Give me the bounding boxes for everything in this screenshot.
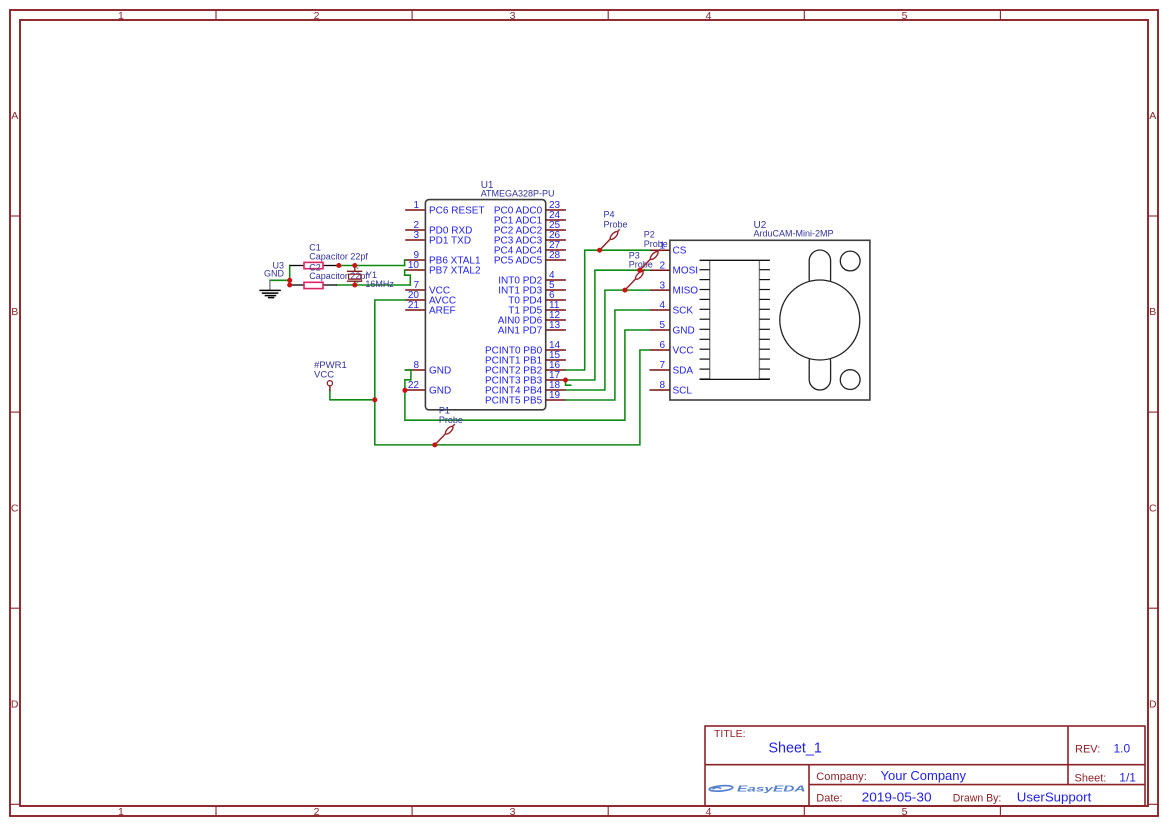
svg-text:2019-05-30: 2019-05-30 <box>862 789 932 804</box>
svg-text:8: 8 <box>659 380 665 391</box>
svg-text:AREF: AREF <box>429 306 456 317</box>
svg-text:Probe: Probe <box>644 239 668 249</box>
svg-text:PB7 XTAL2: PB7 XTAL2 <box>429 266 481 277</box>
svg-text:1.0: 1.0 <box>1114 742 1131 756</box>
svg-text:5: 5 <box>659 320 665 331</box>
svg-text:PCINT5 PB5: PCINT5 PB5 <box>485 396 543 407</box>
svg-text:GND: GND <box>264 268 285 278</box>
svg-text:GND: GND <box>673 326 695 337</box>
svg-text:D: D <box>11 699 19 711</box>
svg-text:2: 2 <box>659 260 665 271</box>
svg-text:1/1: 1/1 <box>1119 771 1136 785</box>
svg-text:5: 5 <box>902 806 908 818</box>
svg-text:EasyEDA: EasyEDA <box>737 785 806 794</box>
svg-text:C: C <box>11 502 19 514</box>
svg-text:Capacitor 22pf: Capacitor 22pf <box>309 251 368 261</box>
svg-text:CS: CS <box>673 246 687 257</box>
svg-text:VCC: VCC <box>314 370 334 381</box>
svg-text:Date:: Date: <box>816 792 842 804</box>
svg-text:GND: GND <box>429 366 451 377</box>
svg-text:A: A <box>11 110 18 122</box>
svg-text:UserSupport: UserSupport <box>1017 790 1092 805</box>
svg-text:Sheet:: Sheet: <box>1075 773 1107 785</box>
svg-text:1: 1 <box>118 806 124 818</box>
svg-text:4: 4 <box>706 10 712 22</box>
svg-text:A: A <box>1149 110 1156 122</box>
svg-text:5: 5 <box>902 10 908 22</box>
svg-text:D: D <box>1149 699 1157 711</box>
svg-text:B: B <box>1149 306 1156 318</box>
svg-text:SCL: SCL <box>673 386 693 397</box>
svg-text:Your Company: Your Company <box>881 768 967 783</box>
svg-text:ATMEGA328P-PU: ATMEGA328P-PU <box>481 189 555 199</box>
svg-text:PD1 TXD: PD1 TXD <box>429 236 471 247</box>
svg-text:SDA: SDA <box>673 366 694 377</box>
svg-text:19: 19 <box>549 390 561 401</box>
svg-text:7: 7 <box>659 360 665 371</box>
svg-text:ArduCAM-Mini-2MP: ArduCAM-Mini-2MP <box>754 229 834 239</box>
svg-text:TITLE:: TITLE: <box>714 728 746 740</box>
svg-text:VCC: VCC <box>673 346 694 357</box>
svg-text:22: 22 <box>408 380 420 391</box>
svg-text:AIN1 PD7: AIN1 PD7 <box>498 326 543 337</box>
svg-text:2: 2 <box>314 10 320 22</box>
svg-text:P4: P4 <box>604 210 615 220</box>
svg-text:SCK: SCK <box>673 306 694 317</box>
svg-text:3: 3 <box>510 10 516 22</box>
svg-text:C: C <box>1149 502 1157 514</box>
svg-text:Drawn By:: Drawn By: <box>953 792 1002 804</box>
svg-text:PC6 RESET: PC6 RESET <box>429 206 485 217</box>
svg-text:REV:: REV: <box>1075 744 1100 756</box>
svg-text:Company:: Company: <box>816 771 867 783</box>
svg-text:MOSI: MOSI <box>673 266 699 277</box>
svg-text:MISO: MISO <box>673 286 699 297</box>
svg-text:2: 2 <box>314 806 320 818</box>
svg-text:6: 6 <box>659 340 665 351</box>
svg-text:13: 13 <box>549 320 561 331</box>
svg-text:Sheet_1: Sheet_1 <box>769 740 822 756</box>
svg-text:4: 4 <box>706 806 712 818</box>
svg-text:10: 10 <box>408 260 420 271</box>
svg-text:Probe: Probe <box>604 219 628 229</box>
svg-text:Probe: Probe <box>439 415 463 425</box>
svg-text:3: 3 <box>413 230 419 241</box>
svg-text:3: 3 <box>510 806 516 818</box>
svg-text:3: 3 <box>659 280 665 291</box>
svg-text:1: 1 <box>118 10 124 22</box>
svg-text:16MHz: 16MHz <box>365 279 394 289</box>
svg-text:GND: GND <box>429 386 451 397</box>
svg-text:4: 4 <box>659 300 665 311</box>
svg-text:21: 21 <box>408 300 420 311</box>
svg-text:8: 8 <box>413 360 419 371</box>
svg-text:28: 28 <box>549 250 561 261</box>
svg-text:PC5 ADC5: PC5 ADC5 <box>494 256 543 267</box>
svg-text:B: B <box>11 306 18 318</box>
svg-text:1: 1 <box>413 200 419 211</box>
